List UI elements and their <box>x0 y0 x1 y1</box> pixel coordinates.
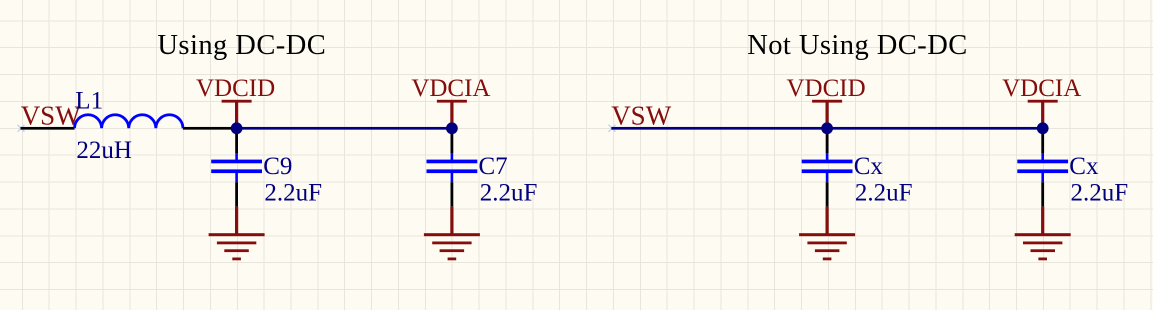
svg-text:C9: C9 <box>263 153 292 180</box>
svg-text:VDCIA: VDCIA <box>411 75 490 102</box>
svg-text:L1: L1 <box>75 88 103 115</box>
svg-text:Using DC-DC: Using DC-DC <box>157 30 326 61</box>
svg-text:Cx: Cx <box>854 153 884 180</box>
svg-text:VDCID: VDCID <box>196 75 275 102</box>
svg-text:2.2uF: 2.2uF <box>264 180 322 207</box>
svg-text:VDCIA: VDCIA <box>1002 75 1081 102</box>
svg-text:VDCID: VDCID <box>787 75 866 102</box>
svg-text:Cx: Cx <box>1069 153 1099 180</box>
svg-text:2.2uF: 2.2uF <box>480 180 538 207</box>
svg-text:22uH: 22uH <box>76 137 132 164</box>
svg-text:VSW: VSW <box>21 100 82 130</box>
svg-text:Not Using DC-DC: Not Using DC-DC <box>747 30 968 61</box>
svg-text:2.2uF: 2.2uF <box>855 180 913 207</box>
svg-text:2.2uF: 2.2uF <box>1071 180 1129 207</box>
svg-text:C7: C7 <box>479 153 508 180</box>
svg-text:VSW: VSW <box>611 100 672 130</box>
